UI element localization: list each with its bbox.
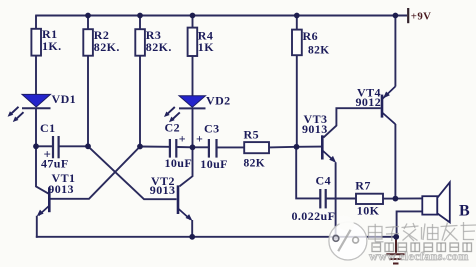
node rail-R3: [137, 13, 143, 19]
wire C4 to R7: [326, 198, 356, 200]
capacitor C3: [209, 139, 217, 158]
label R5: [244, 128, 266, 170]
battery +9V terminal: [407, 8, 409, 23]
label VT1: [48, 171, 75, 196]
label C3: [196, 122, 228, 171]
wire R2 to mid node: [87, 56, 89, 147]
node VT2 collector: [190, 144, 196, 150]
capacitor C1: [53, 136, 59, 158]
label VT2: [150, 174, 176, 197]
wire collector node to speaker: [395, 197, 422, 199]
capacitor C4: [320, 189, 325, 208]
svg-text:www.elecfans.com: www.elecfans.com: [369, 249, 469, 263]
node speaker ground: [393, 234, 399, 240]
node C1 left: [33, 143, 39, 149]
label C1: [40, 121, 69, 171]
wire C1 left: [36, 145, 52, 147]
label R1: [42, 27, 62, 53]
wire R1 to VD1: [35, 56, 37, 95]
wire VT2 emitter to bottom rail: [191, 220, 193, 237]
wire C1 right to R2 node: [60, 145, 89, 147]
wire R6 column to mid node: [296, 55, 298, 147]
speaker B: [422, 182, 450, 222]
wire VT3 emitter to bottom rail: [335, 162, 337, 237]
resistor R6: [292, 30, 302, 56]
capacitor C2: [170, 139, 176, 158]
wire VT4 collector down: [394, 124, 396, 199]
transistor VT4: [382, 86, 395, 124]
transistor VT1: [37, 187, 50, 216]
label C4: [292, 173, 336, 223]
resistor R1: [31, 29, 41, 56]
resistor R5: [244, 142, 269, 153]
wire R3 to mid node: [139, 56, 141, 147]
label VT3: [302, 112, 328, 136]
wire top rail: [35, 15, 407, 17]
wire C4 branch from R6 node: [296, 147, 319, 199]
wire VT4 emitter to rail: [394, 16, 396, 87]
wire R2 column top: [87, 16, 89, 30]
wire bottom rail: [36, 236, 396, 238]
node VT4 collector-R7: [393, 196, 399, 202]
resistor R4: [188, 28, 198, 56]
wire cross-couple C1 node to VT2 base: [88, 146, 177, 199]
node rail-VT4: [393, 13, 399, 19]
wire R4 to VD2: [192, 56, 194, 96]
LED VD2: [164, 96, 206, 123]
wire VD2 to mid node: [192, 108, 194, 147]
transistor VT3: [322, 135, 336, 163]
wire cross-couple R3 node to VT1 base: [50, 147, 140, 199]
wire R3 node to C2: [140, 146, 169, 148]
wire VT2 collector node to C3: [193, 146, 209, 148]
wire R6 column top: [296, 16, 298, 31]
resistor R7: [356, 194, 383, 204]
wire R5 to R6 node: [269, 146, 297, 149]
resistor R2: [83, 29, 93, 56]
resistor R3: [135, 29, 145, 56]
wire R7 to collector node: [383, 198, 395, 200]
label R6: [303, 29, 330, 57]
label C2: [165, 121, 193, 171]
wire VD1 to C1 node to VT1 collector: [36, 108, 48, 193]
label R4: [198, 29, 214, 55]
node rail-R6: [294, 13, 300, 19]
LED VD1: [8, 94, 51, 122]
label R7: [355, 179, 379, 218]
node C1 right: [85, 143, 91, 149]
node rail-R4: [190, 13, 196, 19]
node rail-R2: [85, 13, 91, 19]
node VT3 emitter rail: [333, 234, 339, 240]
wire VT1 emitter to bottom rail: [36, 216, 37, 237]
wire VT2 collector: [179, 147, 192, 186]
label VT4: [356, 85, 382, 109]
wire C2 to VT2 collector node: [177, 146, 192, 148]
wire R6 node to VT3 base: [297, 146, 322, 148]
wire C3 to R5: [217, 146, 244, 148]
wire R3 column top: [139, 16, 141, 30]
wire R4 column top: [192, 16, 194, 29]
wire VT3 collector up to VT4 base: [323, 108, 380, 137]
wire speaker bottom to ground rail: [397, 211, 423, 236]
node VT2 emitter rail: [189, 234, 195, 240]
ground: [386, 237, 404, 264]
transistor VT2: [178, 185, 192, 220]
node R6 bottom: [294, 144, 300, 150]
node R3 bottom: [137, 144, 143, 150]
wire R1 column top: [35, 16, 37, 30]
label R3: [146, 28, 172, 54]
label R2: [94, 28, 120, 54]
